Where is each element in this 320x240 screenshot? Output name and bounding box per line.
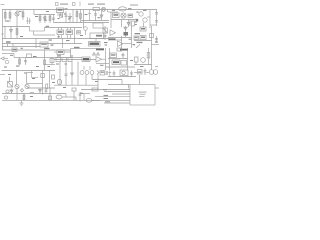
wire vertical V13 [151, 26, 153, 70]
module M1 [40, 42, 48, 47]
wire into box top [139, 75, 141, 85]
wire vertical V5 [147, 10, 150, 29]
capacitor C4 [130, 20, 135, 27]
wire mid bus 3 [111, 19, 136, 21]
capacitor C5 [155, 10, 158, 27]
wire step V7 [30, 27, 56, 36]
IC U1 [57, 8, 64, 13]
wire seg h8 [64, 51, 71, 53]
text label TL6 [137, 42, 143, 43]
wire seg h13 [27, 72, 34, 74]
crystal Y2 [86, 98, 92, 102]
node cluster A [26, 17, 31, 24]
wire seg right [150, 24, 157, 26]
relay contact row CR3 [90, 71, 94, 75]
capacitor C1 [52, 15, 55, 24]
transistor Q4 [25, 84, 29, 88]
off-page arrow [1, 57, 8, 60]
resistor R5 [49, 15, 51, 24]
diode D7 [71, 73, 74, 76]
resistor R2 [9, 10, 11, 23]
wire vertical V41 [107, 10, 109, 13]
wire seg h15 [27, 87, 55, 89]
wire vertical V19 [109, 48, 111, 70]
capacitor C7 [24, 58, 27, 66]
text label TL4 [109, 38, 116, 39]
wire vertical V9 [74, 28, 76, 44]
connector J5 [4, 96, 7, 99]
module M2 [89, 42, 101, 47]
capacitor C14 [144, 69, 147, 76]
transistor Q2 [43, 15, 47, 24]
text label TL8 [74, 47, 80, 48]
capacitor C13 [130, 71, 133, 77]
lamp X1 [102, 7, 106, 11]
wire h-bus B1 [2, 38, 109, 40]
wire vertical V34 [121, 80, 123, 85]
connector block X2 [130, 85, 155, 106]
transformer T1 outline [93, 23, 103, 28]
module M20 [41, 74, 45, 78]
module M26 [72, 88, 76, 91]
relay contact row CR2 [85, 71, 89, 75]
capacitor C10 electrolytic [57, 79, 61, 85]
wire h-bus B6 [54, 59, 96, 61]
module M19 [8, 82, 13, 88]
crystal Y1 [56, 95, 62, 99]
wire mid-low bus [2, 70, 56, 72]
connector J1 [139, 12, 143, 16]
wire seg h17 [92, 79, 122, 81]
wire vertical V38 [75, 97, 77, 100]
module M22 [100, 71, 105, 76]
wire vertical V20 [127, 48, 129, 70]
wire diagonal [136, 45, 140, 49]
wire seg h4 [134, 40, 152, 42]
module M13 [82, 57, 90, 62]
resistor R13 [23, 94, 25, 101]
wire seg h25 [92, 100, 100, 102]
module M5 [150, 34, 154, 38]
wire seg h3 [108, 39, 122, 41]
module M27 [92, 88, 98, 91]
wire vertical V30 [77, 62, 79, 86]
diode D9 [39, 88, 42, 94]
wire h-bus B11 ground [2, 99, 130, 101]
IC U11 [57, 50, 64, 55]
module M9 [50, 59, 54, 63]
wire seg h10 [96, 63, 109, 65]
inductor L1 [119, 7, 127, 11]
transistor Q1 [15, 10, 19, 28]
IC U8 [124, 32, 129, 36]
wire step-down [33, 10, 35, 15]
text speck bottom [105, 101, 110, 102]
wire seg h9 [71, 48, 83, 50]
resistor R6 [76, 10, 78, 23]
wire step V14 [14, 54, 82, 58]
module M21 [52, 75, 55, 79]
text label TL3 [6, 41, 11, 42]
module M4 [140, 36, 146, 40]
wire U1 pins [58, 13, 63, 17]
wire top link [44, 27, 82, 29]
IC U6 [90, 33, 104, 39]
wire seg h [62, 43, 82, 45]
wire h-bus B5 [2, 53, 14, 55]
wire U6-M2 link [95, 39, 97, 42]
module M16 [112, 60, 120, 65]
wire h-bus B2 [2, 43, 62, 45]
wire vertical V35 [128, 85, 130, 89]
wire vertical V22 [16, 71, 18, 85]
wire seg h5 [152, 44, 160, 46]
speaker LS1 [147, 48, 150, 65]
rectifier BR1 [121, 13, 126, 18]
wire h-bus B4 [2, 49, 71, 51]
resistor R4 [39, 15, 41, 24]
diode D10 [127, 20, 130, 28]
text labels TL1 [135, 22, 137, 26]
wire vertical V32 [91, 75, 93, 80]
corner dash [1, 3, 5, 6]
ground GND1 [20, 100, 24, 105]
module M10 [56, 58, 61, 62]
wire left rail [2, 10, 4, 51]
text label TL5 [135, 33, 141, 34]
capacitor C2 [65, 11, 68, 23]
sprinkle specks 4 [105, 44, 136, 46]
wire seg h11 [108, 58, 128, 60]
speck near M6 [21, 48, 24, 49]
relay contact row CR1 [80, 71, 84, 75]
connector J6 [5, 60, 9, 64]
wire seg h22 [30, 92, 34, 94]
wire mid bus 1 [54, 22, 109, 24]
diode D3 [10, 27, 13, 39]
IC U10 [140, 27, 146, 31]
wire vertical V24 [9, 77, 11, 82]
wire op-amp out [102, 58, 106, 60]
text label TL11 [106, 72, 109, 75]
wire vertical V3 [88, 10, 91, 21]
wire seg h19 [146, 72, 149, 74]
text label TL7 [44, 48, 50, 49]
diode D4 [124, 26, 127, 37]
wire seg h12 [134, 64, 152, 66]
wire seg h23 [62, 96, 76, 98]
connector J2 [143, 18, 147, 22]
wire vertical V28 [65, 62, 67, 86]
wire tick T1 [7, 44, 9, 47]
resistor R10 [19, 58, 21, 66]
wire h-bus B8 [54, 84, 98, 86]
wire seg [108, 11, 118, 13]
wire seg h27 [82, 48, 96, 50]
diamond mark [21, 89, 24, 93]
IC U5 [66, 30, 73, 35]
text speck extra [4, 67, 141, 73]
wire vertical V29 [71, 62, 73, 86]
wire seg h20 [108, 84, 130, 86]
wire vertical V15 [44, 50, 46, 70]
text specks [6, 8, 147, 99]
wire vertical V4 [110, 12, 112, 28]
wire vertical V37 [49, 88, 51, 101]
connector J4 [6, 90, 9, 93]
wire step V8 [35, 39, 37, 49]
capacitor C17 [155, 41, 158, 42]
wire seg left edge [0, 74, 5, 76]
capacitor C11 [108, 71, 111, 77]
title text row [60, 4, 138, 6]
resistor R9 [16, 27, 18, 39]
capacitor C8 [122, 53, 125, 59]
switch S1 [103, 26, 108, 40]
wire vertical V6 [4, 27, 6, 39]
module M24 [138, 70, 143, 75]
wire seg h2 [108, 37, 132, 39]
wire vertical V23 [26, 73, 28, 85]
diode D2 [100, 11, 103, 21]
wire seg h21 [98, 89, 130, 91]
wire vertical V2 [83, 10, 85, 29]
wire U4 pins [59, 28, 71, 39]
wire seg h18 [134, 72, 138, 74]
wire seg h7 [54, 51, 57, 53]
diode D5 [93, 53, 96, 56]
wire vertical V11 [121, 36, 123, 48]
module M15 [110, 53, 117, 58]
module M6 [12, 48, 17, 52]
module M23 [120, 70, 128, 76]
wire pin stubs [84, 66, 90, 70]
wire h-bus B9 [108, 76, 136, 78]
speck U11 below [57, 55, 67, 64]
diode D8 [10, 89, 13, 94]
module M12 [68, 58, 72, 62]
resistor R7 [80, 10, 82, 23]
wire seg h24 [81, 89, 98, 91]
wire bottom of stage1 [2, 26, 30, 28]
wire vertical V27 [59, 62, 61, 86]
module M18 [135, 57, 139, 62]
wire vertical V16 [51, 58, 53, 65]
wire vertical V18 [105, 48, 107, 70]
op-amp U7 [110, 30, 116, 36]
relay K1 [60, 14, 63, 17]
resistor R1 [4, 10, 6, 23]
sprinkle specks 2 [24, 56, 98, 83]
module M17 [121, 61, 127, 66]
connector J3 [84, 27, 88, 35]
wire vertical V10 [62, 39, 64, 49]
wire vertical V25 [42, 70, 44, 95]
wire vertical V31 [85, 75, 87, 86]
wire seg h14 [27, 83, 43, 85]
wire vertical V33 [97, 75, 99, 90]
wire h-bus B10 [2, 93, 66, 95]
resistor R8 [93, 8, 100, 11]
wire stub U10 top [143, 23, 145, 28]
capacitor C9 [65, 74, 68, 75]
wire vertical V39 [73, 91, 75, 101]
wire vertical V21 [135, 62, 137, 65]
IC U4 [57, 30, 64, 35]
title glyph boxes [56, 2, 81, 7]
wire seg V42 [32, 71, 39, 78]
text label TL2 [136, 19, 138, 22]
capacitor C3 [94, 11, 97, 21]
resistor R12 [46, 84, 48, 89]
transistor Q3 [15, 84, 19, 88]
wire vertical V40 [83, 94, 85, 101]
IC U2 [113, 13, 120, 18]
module M11 [62, 58, 67, 62]
switch S2 [97, 71, 99, 75]
module M25 [49, 96, 52, 100]
module M14 [117, 48, 122, 51]
wire vertical V1 [72, 10, 74, 23]
module M28 [77, 31, 81, 35]
cluster specks [46, 13, 71, 27]
plug P1 [149, 70, 158, 75]
resistor R3 [22, 10, 24, 21]
op-amp U12 [96, 57, 102, 63]
wire h-bus B7 [106, 66, 136, 68]
text label TL13 [103, 89, 107, 90]
wire top supply bus [2, 9, 157, 11]
wire box stubs [95, 92, 130, 104]
diode D6 [97, 53, 100, 56]
wire tick [155, 66, 158, 68]
module M3 [134, 36, 139, 40]
IC U3 [128, 14, 133, 18]
wire vertical V17 [70, 49, 72, 58]
resistor R11 [44, 60, 46, 65]
wire tick T2 [12, 44, 14, 47]
motor M [141, 58, 146, 63]
sprinkle specks 3 [51, 32, 80, 46]
wire seg h6 [45, 64, 56, 66]
capacitor C15 [45, 88, 48, 94]
capacitor C18 [104, 36, 107, 37]
wire output stub [155, 87, 159, 89]
wire vertical V12 [131, 26, 133, 48]
wire vertical V26 [49, 70, 51, 88]
module M8 [27, 54, 32, 58]
capacitor C6 [155, 36, 158, 43]
wire seg h26 [81, 93, 90, 95]
wire vertical V36 [16, 88, 18, 101]
capacitor C16 [79, 92, 82, 102]
text label TL9 [96, 48, 104, 50]
text speck M3 [135, 12, 139, 39]
text label TL10 [120, 49, 128, 51]
wire mid bus 2 [81, 20, 109, 22]
wire h-bus B3 [2, 46, 40, 48]
capacitor C12 [113, 71, 116, 77]
diode D1 [69, 13, 72, 23]
wire sub bus [34, 14, 55, 16]
text label TL12 [139, 92, 147, 97]
op-amp U9 [118, 41, 132, 47]
